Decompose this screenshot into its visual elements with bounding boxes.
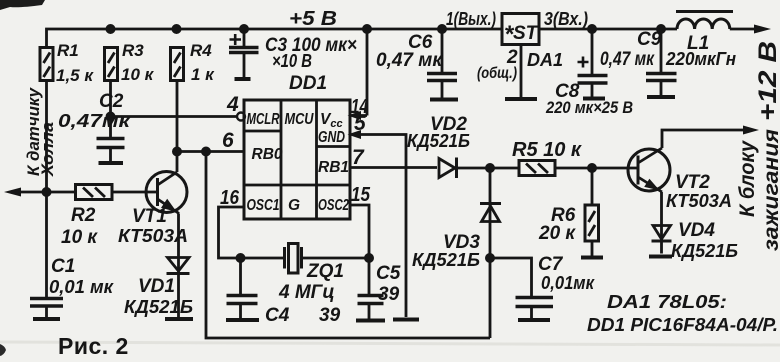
- svg-text:0,01 мк: 0,01 мк: [49, 277, 114, 297]
- inductor L1: [676, 12, 733, 30]
- ground C2: [99, 161, 124, 165]
- wire pin5 GND: [348, 130, 407, 317]
- svg-text:15: 15: [351, 184, 371, 206]
- capacitor C8 (electrolytic): [578, 29, 608, 97]
- svg-text:16: 16: [220, 187, 240, 209]
- svg-text:10 к: 10 к: [121, 65, 155, 84]
- wire +5V top rail: [47, 29, 503, 48]
- wire L1 to +12V arrow: [730, 25, 771, 34]
- crystal ZQ1: [285, 244, 370, 274]
- resistor R1: [40, 48, 53, 81]
- wire node A down to C1: [45, 192, 48, 297]
- ground ST pin2: [505, 97, 537, 101]
- wire VT2 collector up and out: [662, 126, 759, 149]
- wire pin7 RB1 to VD2: [350, 166, 437, 169]
- svg-text:RB0: RB0: [252, 146, 283, 163]
- node pin14 drop: [362, 24, 372, 34]
- svg-text:К блоку: К блоку: [736, 140, 759, 217]
- node R4/VT1 collector: [172, 147, 182, 157]
- capacitor C4: [227, 258, 258, 318]
- svg-text:DA1: DA1: [527, 50, 563, 70]
- svg-text:1,5 к: 1,5 к: [56, 66, 94, 85]
- wire R4 bottom to pin6 net: [176, 81, 179, 152]
- wire node A to R2: [47, 191, 76, 194]
- wire to hall arrow: [4, 188, 47, 197]
- node MCLR net: [106, 112, 116, 122]
- svg-text:DD1: DD1: [289, 73, 327, 94]
- wire R2 to VT1 base: [112, 191, 157, 194]
- node C7 branch: [485, 253, 495, 263]
- capacitor C3 (electrolytic): [229, 29, 259, 77]
- svg-text:C2: C2: [99, 91, 124, 112]
- node A (hall input junction): [42, 187, 52, 197]
- svg-text:DA1 78L05:: DA1 78L05:: [607, 292, 727, 312]
- node VD3 top: [485, 163, 495, 173]
- wire ST pin2 down: [520, 45, 523, 98]
- diode VD3: [480, 168, 501, 338]
- IC DA1 box ST: [502, 14, 539, 49]
- ground pin5: [393, 318, 419, 322]
- ground C4: [226, 318, 259, 322]
- ground VD1: [165, 317, 193, 321]
- ground C3: [235, 77, 251, 81]
- capacitor C1: [30, 299, 63, 318]
- svg-text:VT1: VT1: [132, 206, 167, 227]
- svg-text:6: 6: [222, 129, 234, 152]
- resistor R2: [76, 185, 113, 200]
- resistor R5: [519, 161, 555, 176]
- ground C7: [518, 318, 550, 322]
- capacitor C2: [97, 139, 125, 162]
- svg-text:RB1: RB1: [318, 159, 349, 176]
- wire pin4 (MCLR): [111, 115, 237, 118]
- svg-text:КД521Б: КД521Б: [407, 131, 470, 151]
- capacitor C9: [646, 29, 677, 95]
- wire pin16 OSC1: [219, 207, 285, 258]
- svg-text:КД521Б: КД521Б: [671, 241, 738, 261]
- svg-text:OSC2: OSC2: [318, 197, 349, 214]
- wire pin15 OSC2: [350, 205, 369, 294]
- ground C6: [430, 98, 458, 102]
- transistor VT2: [628, 148, 670, 192]
- svg-text:(общ.): (общ.): [477, 65, 517, 82]
- ground C1: [33, 317, 60, 321]
- node R6 top: [587, 163, 597, 173]
- ground C9: [647, 95, 675, 99]
- svg-text:0,47 мк: 0,47 мк: [376, 50, 443, 71]
- svg-text:DD1 PIC16F84A-04/P.: DD1 PIC16F84A-04/P.: [587, 315, 778, 335]
- svg-text:ZQ1: ZQ1: [306, 261, 344, 282]
- capacitor C5: [358, 296, 384, 319]
- node C5: [364, 253, 374, 263]
- svg-text:7: 7: [352, 146, 365, 169]
- svg-text:VD4: VD4: [678, 220, 715, 241]
- resistor R4: [171, 48, 184, 81]
- resistor R6: [585, 168, 599, 256]
- svg-text:5: 5: [354, 112, 366, 135]
- capacitor C7: [516, 298, 554, 319]
- wire VT1 collector up: [176, 152, 179, 173]
- svg-text:3(Вх.): 3(Вх.): [544, 9, 588, 29]
- ground C5: [356, 319, 385, 323]
- wire R5 to VT2 base: [555, 167, 638, 170]
- node C6 top: [437, 24, 447, 34]
- svg-text:MCU: MCU: [285, 111, 315, 128]
- svg-text:GND: GND: [318, 129, 345, 146]
- svg-text:4: 4: [226, 93, 239, 116]
- diode VD2: [439, 158, 457, 179]
- svg-text:R4: R4: [190, 41, 212, 60]
- svg-text:4 МГц: 4 МГц: [278, 282, 335, 303]
- svg-text:0,01мк: 0,01мк: [541, 273, 595, 293]
- svg-text:C7: C7: [538, 254, 564, 275]
- node C9: [656, 24, 666, 34]
- svg-text:1(Вых.): 1(Вых.): [446, 9, 496, 29]
- diode VD4 (with emitter stem): [652, 192, 672, 254]
- capacitor C6: [427, 29, 457, 98]
- svg-text:0,47 мк: 0,47 мк: [600, 49, 655, 70]
- node C8: [587, 24, 597, 34]
- svg-text:+5 В: +5 В: [289, 8, 337, 30]
- svg-text:C1: C1: [51, 256, 75, 277]
- svg-text:зажигания: зажигания: [760, 129, 780, 251]
- wire ST out to L1: [539, 28, 677, 31]
- svg-text:R5 10 к: R5 10 к: [512, 139, 582, 161]
- svg-text:C4: C4: [265, 305, 290, 326]
- svg-text:MCLR: MCLR: [247, 111, 281, 128]
- wire R1 bottom to node A: [45, 81, 48, 193]
- svg-text:39: 39: [319, 305, 341, 326]
- svg-text:G: G: [288, 197, 300, 214]
- svg-text:R1: R1: [57, 41, 79, 60]
- node bottom-rail drop: [201, 147, 211, 157]
- svg-text:КТ503А: КТ503А: [666, 191, 732, 211]
- node C4 branch: [236, 253, 246, 263]
- IC DD1 box: [244, 100, 350, 219]
- wire VD2 to R5: [457, 167, 520, 170]
- svg-text:КД521Б: КД521Б: [124, 297, 193, 317]
- svg-text:20 к: 20 к: [538, 223, 576, 244]
- node C3 top: [239, 24, 249, 34]
- svg-text:VT2: VT2: [675, 172, 710, 193]
- ground R6: [581, 256, 603, 260]
- svg-text:+12 В: +12 В: [754, 41, 780, 121]
- wire R3 bottom to C2: [109, 81, 112, 139]
- diode VD1: [167, 214, 190, 318]
- wire pin14 Vcc: [348, 29, 368, 120]
- svg-text:R3: R3: [122, 41, 144, 60]
- ground C8: [583, 97, 605, 101]
- svg-text:VD1: VD1: [138, 276, 175, 297]
- wire bottom rail: [206, 152, 490, 339]
- svg-text:Холла: Холла: [38, 122, 57, 177]
- svg-text:C9: C9: [637, 29, 662, 50]
- svg-text:39: 39: [378, 284, 400, 305]
- svg-text:220 мк×25 В: 220 мк×25 В: [545, 98, 633, 117]
- svg-text:OSC1: OSC1: [247, 197, 280, 214]
- node R4 top: [172, 24, 182, 34]
- transistor VT1: [146, 172, 187, 214]
- svg-text:10 к: 10 к: [61, 227, 98, 248]
- svg-text:Рис. 2: Рис. 2: [58, 333, 129, 359]
- svg-text:R2: R2: [71, 205, 96, 226]
- svg-text:220мкГн: 220мкГн: [665, 49, 736, 69]
- svg-text:0,47мк: 0,47мк: [58, 111, 131, 131]
- resistor R3: [105, 48, 118, 81]
- ground VD4: [649, 255, 672, 259]
- wire pin6 (RB0): [177, 150, 244, 153]
- svg-text:КД521Б: КД521Б: [412, 250, 480, 270]
- node R3 top: [106, 24, 116, 34]
- svg-text:C5: C5: [376, 263, 401, 284]
- wire to C7: [490, 258, 532, 296]
- svg-text:×10 В: ×10 В: [272, 51, 312, 71]
- MCLR inversion circle: [237, 113, 245, 121]
- svg-text:ST: ST: [513, 23, 539, 44]
- svg-text:1 к: 1 к: [191, 65, 215, 84]
